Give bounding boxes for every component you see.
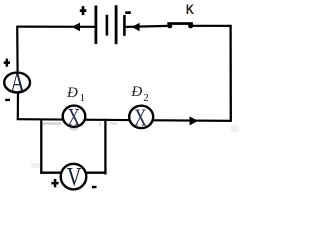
- battery + label: [80, 6, 87, 15]
- current arrow on middle wire after lamp D2 (pointing right): [190, 116, 199, 125]
- wire right vertical: [229, 25, 231, 122]
- ammeter + label: [4, 59, 10, 67]
- wire top-right segment (battery - terminal to switch to right corner): [126, 26, 232, 27]
- wire voltmeter right branch (vertical): [104, 119, 106, 175]
- lamp D1: [63, 103, 86, 130]
- voltmeter + label: [51, 179, 58, 187]
- svg-text:X: X: [134, 104, 147, 131]
- wire voltmeter left branch (vertical): [40, 119, 42, 174]
- smudge artifacts (faint gray): [31, 121, 239, 169]
- wire ammeter bottom to middle-left corner: [17, 93, 19, 121]
- current arrow on top-left wire (pointing left): [72, 23, 80, 32]
- svg-text:X: X: [67, 103, 80, 130]
- wire middle horizontal (through lamps, left corner to right corner): [17, 119, 232, 121]
- svg-text:A: A: [10, 69, 25, 98]
- lamp D2 label: [130, 84, 148, 104]
- switch K (closed): [167, 22, 193, 28]
- svg-text:2: 2: [143, 92, 149, 104]
- svg-text:V: V: [67, 163, 82, 192]
- switch label K: [186, 2, 195, 17]
- lamp D1 label: [66, 85, 85, 104]
- voltmeter V: [61, 163, 87, 192]
- wire left vertical (corner down to ammeter): [16, 26, 19, 73]
- svg-text:Đ: Đ: [130, 84, 142, 100]
- voltmeter - label: [92, 186, 97, 188]
- wire top-left segment (battery + terminal to left corner): [17, 26, 95, 28]
- svg-text:K: K: [186, 2, 195, 17]
- lamp D2: [129, 104, 153, 131]
- ammeter - label: [5, 99, 10, 101]
- svg-text:Đ: Đ: [66, 85, 78, 101]
- ammeter A: [4, 69, 30, 98]
- wire voltmeter bottom horizontal: [40, 172, 106, 174]
- battery - label: [125, 11, 131, 14]
- svg-text:1: 1: [80, 92, 86, 104]
- current arrow right of battery (pointing left): [132, 23, 140, 32]
- battery (two cells): [95, 5, 126, 44]
